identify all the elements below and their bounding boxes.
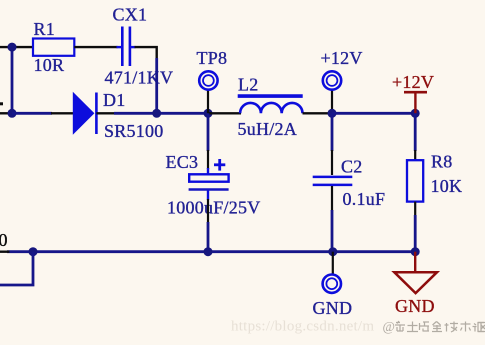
inductor L2 coil <box>240 103 302 113</box>
wire R8 bottom to bus <box>414 215 417 252</box>
pin C2 bottom <box>331 186 333 211</box>
node junction (333,252) <box>328 247 337 256</box>
svg-text:0: 0 <box>0 230 8 250</box>
node junction (415,252) <box>411 247 420 256</box>
inductor L2 bar <box>238 94 303 98</box>
test point TP8 pin <box>207 89 209 114</box>
svg-text:https://blog.csdn.net/m: https://blog.csdn.net/m <box>231 319 374 335</box>
svg-text:CX1: CX1 <box>113 4 148 24</box>
svg-text:GND: GND <box>313 298 353 318</box>
diode D1 triangle <box>73 92 95 135</box>
pin tick EC3 top blue <box>207 168 209 175</box>
test point +12V pin <box>331 89 333 114</box>
svg-text:471/1KV: 471/1KV <box>105 67 174 87</box>
svg-text:+12V: +12V <box>392 72 434 92</box>
stub at left edge (cut component) <box>0 102 3 105</box>
svg-text:R1: R1 <box>34 19 56 39</box>
wire mid row to D1 <box>12 112 52 115</box>
svg-text:C2: C2 <box>341 157 363 177</box>
resistor R8 body <box>407 160 423 201</box>
capacitor EC3 bottom plate <box>189 188 229 191</box>
pin D1 anode <box>51 112 74 114</box>
pin R1 right to CX1 <box>74 46 117 48</box>
wire ground bus <box>7 250 415 253</box>
power bar +12V <box>404 91 427 94</box>
svg-text:SR5100: SR5100 <box>104 121 164 141</box>
wire left drop from bus <box>0 252 33 285</box>
test point GND pin <box>332 252 334 275</box>
svg-text:10K: 10K <box>431 176 463 196</box>
svg-text:+12V: +12V <box>321 48 363 68</box>
resistor R1 body <box>33 39 74 56</box>
svg-text:10R: 10R <box>34 55 65 75</box>
pin L2 left <box>208 112 241 114</box>
wire D1 to TP8 node <box>114 112 208 115</box>
svg-text:D1: D1 <box>103 90 126 110</box>
svg-text:R8: R8 <box>431 151 453 171</box>
svg-text:@: @ <box>383 319 396 334</box>
wire C2 bottom to bus <box>331 210 334 252</box>
test point GND inner circle <box>326 278 337 289</box>
node junction (33,252) <box>29 247 38 256</box>
wire R8 top <box>414 113 417 151</box>
svg-text:TP8: TP8 <box>197 48 228 68</box>
node junction (208,113) <box>204 109 213 118</box>
wire black stub under 0 label <box>0 250 10 252</box>
pin tick blue left of CX1 <box>117 46 122 48</box>
ground triangle GND red <box>394 272 437 293</box>
node junction (156.7,113) <box>152 109 161 118</box>
power stem +12V <box>414 92 416 113</box>
svg-text:L2: L2 <box>238 74 259 94</box>
capacitor CX1 right plate <box>129 27 132 67</box>
wire C2 top <box>331 113 334 151</box>
test point TP8 outer circle <box>199 71 217 89</box>
wire (left stub to R1, top row) <box>0 46 34 48</box>
test point GND outer circle <box>323 275 341 293</box>
wire EC3 bottom to bus <box>207 222 210 252</box>
node junction (12,47) <box>8 43 17 52</box>
pin EC3 bottom <box>207 191 209 201</box>
wire (vertical, left net x=12) <box>11 47 14 113</box>
test point TP8 inner circle <box>203 75 214 86</box>
svg-text:EC3: EC3 <box>166 152 199 172</box>
wire EC3 top <box>207 113 210 151</box>
wire vertical into node at 156.7 <box>155 58 158 113</box>
watermark cjk glyphs <box>395 321 485 332</box>
pin EC3 top <box>207 150 209 169</box>
svg-text:1000uF/25V: 1000uF/25V <box>167 198 261 218</box>
pin L2 right <box>303 112 333 114</box>
power stem GND red <box>414 252 416 273</box>
test point +12V outer circle <box>323 71 341 89</box>
node junction (12,113) <box>8 109 17 118</box>
pin R8 top <box>414 150 416 161</box>
pin tick blue right of CX1 <box>131 46 136 48</box>
node junction (208,252) <box>204 247 213 256</box>
capacitor EC3 top plate (rect) <box>189 174 228 181</box>
node junction (415,113) <box>411 109 420 118</box>
svg-text:GND: GND <box>395 296 435 316</box>
capacitor C2 top plate <box>313 176 353 179</box>
pin D1 cathode <box>96 112 115 114</box>
wire (332,113) to (415,113) <box>332 112 415 115</box>
test point +12V inner circle <box>327 75 338 86</box>
pin EC3 bottom black <box>207 199 209 223</box>
node junction (332,113) <box>328 109 337 118</box>
pin R8 bottom <box>414 202 416 216</box>
svg-text:0.1uF: 0.1uF <box>343 189 386 209</box>
diode D1 cathode bar <box>95 93 98 135</box>
capacitor CX1 left plate <box>121 27 124 67</box>
capacitor C2 bottom plate <box>313 184 353 187</box>
svg-text:5uH/2A: 5uH/2A <box>238 119 298 139</box>
wire CX1 right corner down <box>135 47 157 60</box>
capacitor EC3 plus sign <box>214 159 225 171</box>
pin C2 top <box>331 150 333 175</box>
wire (left stub mid row) <box>0 112 12 114</box>
